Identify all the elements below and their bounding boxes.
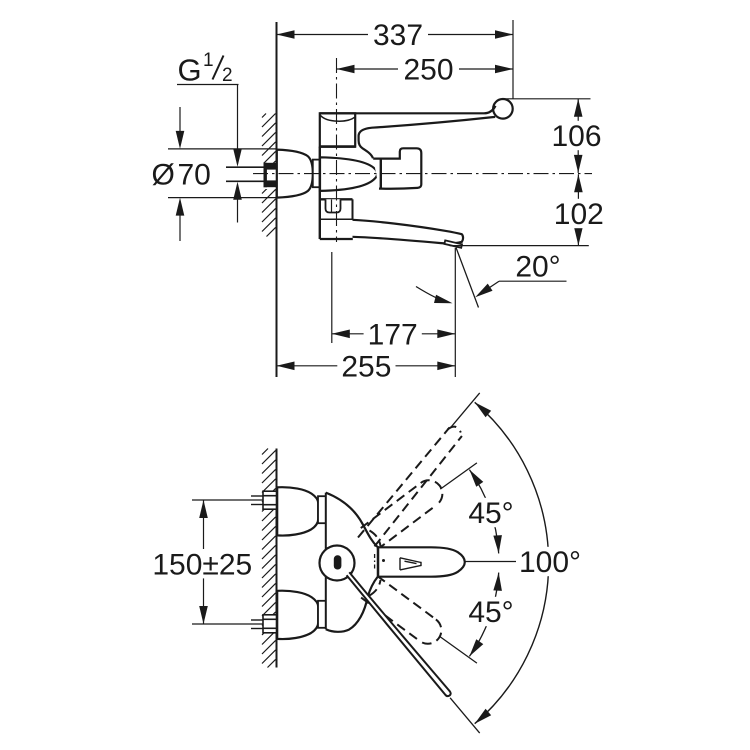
G 1/2 arrow up: [233, 182, 242, 223]
20 deg leader: [473, 281, 567, 301]
cartridge cone: [320, 157, 377, 191]
dimension 337: [277, 30, 514, 39]
arc extension top: [450, 393, 480, 428]
lower escutcheon (bottom view): [277, 591, 318, 639]
dimension dia70 arrows: [176, 107, 185, 241]
svg-text:45°: 45°: [468, 497, 513, 530]
supply pipe: [226, 163, 277, 189]
G 1/2 arrow down: [233, 85, 242, 167]
svg-text:1: 1: [203, 50, 214, 71]
upper escutcheon (bottom view): [277, 487, 318, 535]
extension line 177 left: [331, 252, 333, 343]
label G 1/2: [178, 50, 233, 88]
cap: [319, 113, 356, 146]
wall hatching (top view): [262, 114, 276, 237]
horizontal centerline: [253, 173, 592, 175]
upper supply stub: [251, 496, 263, 505]
dimension 250: [337, 65, 514, 74]
label 102: [550, 198, 608, 231]
dashed lever extreme up: [358, 427, 462, 547]
svg-text:Ø: Ø: [152, 159, 175, 192]
extension line 106 top: [502, 98, 591, 100]
cartridge dome (bottom view): [320, 546, 355, 581]
label 45 bottom: [465, 596, 518, 629]
dashed lever 45 up: [361, 480, 443, 549]
20 deg open spout line: [456, 248, 479, 308]
label dia 70: [149, 159, 213, 192]
lever (top view): [320, 106, 496, 159]
label 177: [364, 319, 422, 352]
lever (bottom view): [378, 546, 465, 578]
lever blade detail: [400, 558, 421, 570]
lower hex nut: [263, 615, 277, 633]
spout: [353, 220, 464, 244]
aerator: [444, 240, 462, 247]
extension line spout tip vertical: [454, 248, 456, 377]
dimension 177: [332, 330, 456, 339]
svg-text:G: G: [178, 53, 202, 88]
pipe nut blocks: [264, 163, 277, 187]
body fan (bottom view): [326, 493, 378, 632]
dimension 102: [574, 174, 583, 245]
svg-text:106: 106: [551, 120, 601, 153]
45 ext line bottom: [440, 637, 477, 663]
lower neck (bottom view): [318, 601, 326, 628]
lower supply stub: [251, 620, 263, 629]
label 100deg: [516, 546, 589, 579]
set screw: [326, 199, 341, 212]
svg-text:20°: 20°: [515, 250, 560, 283]
svg-text:150±25: 150±25: [152, 548, 252, 581]
wall (bottom view): [276, 449, 278, 668]
escutcheon (top view): [277, 150, 313, 198]
dimension dia70 ext lines: [168, 149, 277, 198]
cartridge axis mark: [375, 554, 385, 570]
100 deg arc: [472, 399, 549, 727]
extension line lever tip: [512, 20, 514, 99]
45 ext line top: [440, 463, 477, 489]
svg-text:177: 177: [368, 319, 418, 352]
vertical centerline: [336, 58, 338, 242]
20 deg swing arc: [416, 287, 454, 308]
label 106: [547, 120, 605, 153]
dome mark: [334, 555, 342, 569]
svg-text:250: 250: [403, 54, 453, 87]
svg-text:45°: 45°: [468, 596, 513, 629]
label 337: [369, 19, 427, 52]
label G 1/2 shelf: [177, 84, 239, 86]
arc extension bottom: [450, 698, 480, 733]
label 45 top: [465, 497, 518, 530]
svg-text:2: 2: [222, 65, 233, 86]
escutcheon neck: [313, 160, 320, 188]
45 dim arc bottom: [466, 572, 503, 659]
long lever handle: [347, 572, 451, 696]
upper supply axis: [249, 499, 281, 501]
dimension 150 line: [199, 500, 208, 624]
svg-text:337: 337: [373, 19, 423, 52]
svg-text:100°: 100°: [519, 546, 581, 579]
label 150+-25: [149, 548, 255, 581]
label 255: [337, 351, 395, 384]
svg-text:70: 70: [178, 159, 211, 192]
upper neck (bottom view): [318, 496, 326, 523]
neutral axis line: [466, 561, 517, 563]
label 250: [399, 54, 457, 87]
wall (top view): [276, 22, 278, 377]
dimension 150 ext lines: [192, 500, 262, 624]
dimension 255: [277, 362, 456, 371]
lever knob: [493, 99, 513, 119]
extension line spout bottom: [450, 245, 589, 247]
body column: [320, 147, 353, 239]
lower supply axis: [249, 623, 281, 625]
dimension 106: [574, 99, 583, 173]
upper hex nut: [263, 491, 277, 509]
dashed lever 45 down: [361, 576, 441, 644]
outlet block: [373, 148, 421, 188]
block joint: [380, 160, 382, 189]
svg-text:102: 102: [554, 198, 604, 231]
45 dim arc top: [466, 467, 503, 554]
wall hatching (bottom view): [262, 449, 276, 668]
label 20deg: [512, 250, 565, 283]
svg-text:255: 255: [341, 351, 391, 384]
